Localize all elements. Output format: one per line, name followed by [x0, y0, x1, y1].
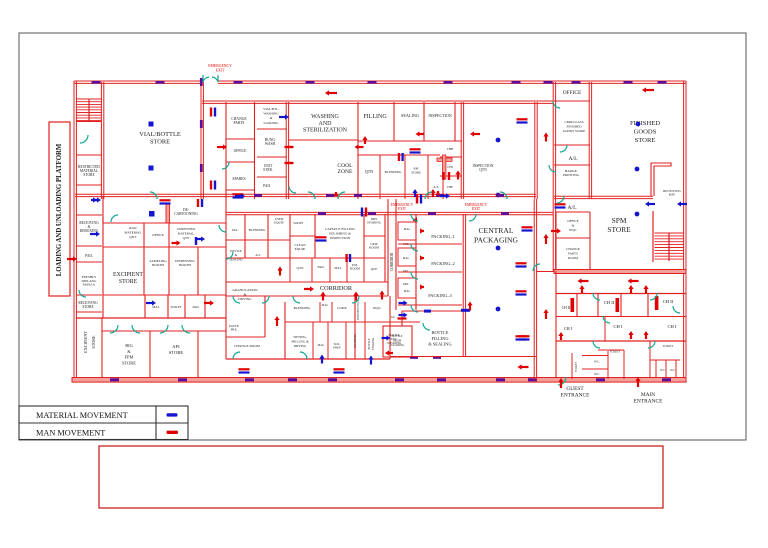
svg-text:STORE: STORE [635, 137, 656, 144]
de-cartooning wall stub [166, 204, 170, 223]
svg-text:STERILIZATION: STERILIZATION [303, 128, 348, 134]
svg-text:MAL: MAL [404, 227, 411, 231]
svg-text:CARTOONING: CARTOONING [174, 212, 198, 216]
svg-text:BAY: BAY [669, 193, 676, 197]
svg-text:BOOTH: BOOTH [179, 263, 191, 267]
svg-text:BLENDING: BLENDING [249, 228, 266, 232]
markers dispensing blue arrow [195, 238, 202, 240]
bottle filling room walls [389, 296, 391, 359]
svg-text:BLENDING: BLENDING [385, 170, 402, 174]
svg-text:RAW: RAW [129, 226, 137, 230]
svg-text:MAL: MAL [403, 256, 410, 260]
marker arrows rm store bottom [414, 192, 416, 197]
wall below fgs [554, 196, 653, 198]
material dots central [497, 194, 499, 196]
svg-text:BLENDING: BLENDING [294, 306, 311, 310]
svg-text:FINISHED: FINISHED [566, 125, 582, 129]
svg-text:SPM: SPM [612, 216, 627, 225]
packing boxes column [398, 222, 416, 240]
svg-text:PAIL: PAIL [403, 282, 409, 286]
svg-text:SPARES: SPARES [232, 177, 245, 181]
svg-text:COMP.: COMP. [337, 306, 347, 310]
room bottle drum cleaning box [383, 326, 412, 357]
svg-text:&: & [270, 116, 273, 120]
svg-text:FINISHED: FINISHED [630, 120, 660, 127]
change parts column walls [225, 102, 227, 199]
toilet block walls [571, 353, 573, 379]
svg-text:STORING: STORING [367, 221, 382, 225]
svg-text:WASH: WASH [293, 221, 303, 225]
markers bottom outside [239, 368, 250, 370]
marker dbl sterilization [316, 236, 327, 238]
svg-text:CLEANING: CLEANING [390, 343, 405, 347]
svg-text:&: & [127, 349, 131, 354]
svg-text:PRE.: PRE. [231, 328, 238, 332]
svg-text:ENTRANCE: ENTRANCE [634, 399, 663, 405]
marker pair inspection [517, 118, 528, 120]
marker pair vial wall [210, 108, 212, 117]
svg-text:STER.: STER. [263, 168, 273, 172]
svg-text:TOILET: TOILET [170, 305, 181, 309]
svg-text:QCE: QCE [371, 267, 378, 271]
wall office right / fgs left [589, 82, 591, 199]
material dots fgs [636, 122, 641, 127]
svg-text:STORE: STORE [411, 171, 421, 175]
svg-text:A/L: A/L [255, 253, 260, 257]
svg-text:PACKING–1: PACKING–1 [431, 234, 455, 239]
wall office left [553, 82, 555, 271]
svg-text:CH I: CH I [667, 324, 677, 329]
purple dashes central bottom wall [410, 356, 418, 359]
marker red varrow central [545, 237, 547, 244]
markers left column arrows [91, 199, 98, 201]
legend box [19, 406, 188, 440]
svg-text:A/L: A/L [433, 185, 438, 189]
svg-text:TOILET: TOILET [574, 362, 578, 372]
svg-text:ROOM: ROOM [350, 267, 360, 271]
svg-text:GRANULATION: GRANULATION [232, 288, 258, 292]
main entrance arrows [637, 380, 639, 387]
svg-text:DISPENSED: DISPENSED [177, 227, 195, 231]
markers corridor arrows blue [235, 195, 242, 197]
svg-text:BOTTLE: BOTTLE [391, 334, 402, 338]
marker arrow bottom corridor [521, 366, 529, 368]
outer wall right [684, 81, 686, 271]
marker arrows top corridor [328, 92, 337, 94]
svg-text:PAIL: PAIL [317, 265, 324, 269]
inspection QTN walls [461, 102, 463, 199]
packing dividers [398, 243, 462, 245]
svg-text:MAL: MAL [318, 343, 325, 347]
markers central packaging [522, 226, 533, 228]
wash column walls [286, 102, 288, 199]
svg-text:MAN MOVEMENT: MAN MOVEMENT [36, 428, 105, 437]
wall jamb stubs ch column [437, 158, 452, 161]
svg-text:API: API [172, 344, 180, 349]
svg-text:TOILET: TOILET [663, 344, 674, 348]
marker red arrow raw mat [172, 242, 178, 244]
svg-text:A/L: A/L [568, 156, 578, 162]
svg-text:STORE: STORE [83, 173, 95, 177]
markers excipient [304, 288, 311, 290]
marker up arrow spares [335, 192, 337, 195]
svg-text:QTN: QTN [479, 168, 487, 172]
svg-text:MAIN: MAIN [641, 392, 655, 398]
marker vertical red wall right of packing [469, 305, 471, 311]
svg-text:DEBOXING: DEBOXING [80, 229, 99, 233]
svg-text:ZONE: ZONE [338, 169, 353, 175]
svg-text:BOOTH: BOOTH [152, 263, 164, 267]
ch wall 3 [556, 340, 686, 342]
svg-text:&: & [244, 293, 247, 297]
svg-text:CHANGE: CHANGE [566, 247, 580, 251]
svg-text:PACKING–3: PACKING–3 [428, 293, 452, 298]
central block bottom wall [390, 356, 536, 358]
marker arrow entrance corridor [581, 280, 589, 282]
corridor wall purple dashes [254, 194, 262, 197]
svg-text:STORE: STORE [169, 350, 184, 355]
svg-text:QNT.: QNT. [129, 235, 137, 239]
marker vbar pair used equip [345, 254, 347, 262]
svg-text:IPQC: IPQC [373, 306, 381, 310]
svg-text:PACKING–2: PACKING–2 [431, 261, 455, 266]
svg-text:PAIL: PAIL [192, 305, 199, 309]
sheet border frame [19, 33, 746, 440]
marker blue arrow mal toilet [146, 302, 153, 304]
svg-text:VIAL/BOTTLE: VIAL/BOTTLE [139, 131, 181, 138]
svg-text:CH II: CH II [604, 300, 615, 305]
svg-text:SEALING: SEALING [229, 257, 243, 261]
marker blue sq decartoning [149, 211, 155, 217]
svg-text:MAL: MAL [322, 303, 329, 307]
left column partition walls [76, 154, 102, 156]
fgs inner L wall [651, 163, 671, 196]
svg-text:W.C.: W.C. [594, 360, 600, 364]
marker corridor up arrow [279, 270, 281, 276]
svg-text:WASHING: WASHING [311, 114, 339, 120]
svg-text:IPQC: IPQC [569, 228, 577, 232]
legend blue symbol [167, 413, 178, 416]
svg-text:CHE: CHE [447, 185, 453, 189]
svg-text:TOILET: TOILET [610, 350, 621, 354]
svg-text:MILLING &: MILLING & [291, 339, 309, 343]
svg-text:DRYING: DRYING [238, 297, 252, 301]
central row small room dividers [226, 239, 290, 241]
corridor wall upper [75, 194, 536, 196]
svg-text:PAIL: PAIL [263, 184, 271, 188]
blue dashes bottle filling top wall [424, 310, 431, 313]
svg-text:ROOM: ROOM [369, 246, 379, 250]
guest entrance door [558, 377, 566, 385]
svg-text:GUEST: GUEST [566, 386, 584, 392]
svg-text:MAL: MAL [334, 266, 341, 270]
svg-text:LOADING AND UNLOADING PLATFORM: LOADING AND UNLOADING PLATFORM [56, 143, 63, 276]
thick wall spm bottom [554, 270, 686, 274]
marker red up arrow che [457, 174, 459, 180]
svg-text:STORE: STORE [119, 279, 138, 285]
svg-text:PRINTING: PRINTING [563, 173, 580, 177]
svg-text:WASHING: WASHING [263, 112, 279, 116]
svg-text:INSPECTION: INSPECTION [330, 236, 351, 240]
svg-text:EQUIP.: EQUIP. [295, 247, 306, 251]
cool zone walls [358, 154, 440, 156]
svg-text:STAGING: STAGING [371, 338, 375, 350]
svg-text:QTN: QTN [365, 169, 374, 174]
receiving bay arrows [648, 203, 655, 205]
emergency exit door arcs top [203, 77, 209, 82]
svg-text:CH II: CH II [663, 299, 674, 304]
corridor horizontal walls [226, 281, 388, 283]
marker pair decartooning door [160, 199, 171, 201]
tiny rooms CHB CHI [440, 156, 462, 158]
svg-text:DRUM: DRUM [393, 338, 402, 342]
svg-text:ROOM: ROOM [568, 256, 578, 260]
marker red arrow inspection left [473, 133, 480, 135]
filling sealing inspection walls [357, 102, 359, 199]
marker blue arrow top left [94, 199, 97, 201]
svg-text:MATERIAL MOVEMENT: MATERIAL MOVEMENT [36, 411, 128, 420]
wall below top corridor [202, 101, 553, 103]
svg-text:W.C.: W.C. [660, 369, 666, 372]
svg-text:MAL: MAL [404, 289, 411, 293]
svg-text:VIAL/BTL.: VIAL/BTL. [263, 107, 279, 111]
svg-text:GOODS STORE: GOODS STORE [563, 129, 586, 133]
central row verticals [225, 199, 227, 296]
svg-text:A/L: A/L [391, 316, 396, 319]
corridor vertical walls [387, 199, 389, 296]
svg-text:CHI: CHI [447, 165, 453, 169]
door arc platform [80, 135, 88, 143]
door arcs bottom-left [110, 325, 118, 333]
svg-text:EXIT: EXIT [472, 207, 481, 211]
svg-text:LOADING: LOADING [263, 121, 279, 125]
svg-text:PREP: PREP [333, 346, 341, 350]
svg-text:OFFICE: OFFICE [234, 149, 247, 153]
svg-text:CAPSULE FILLING: CAPSULE FILLING [325, 227, 356, 231]
outer wall left [74, 81, 76, 378]
markers granulation arrows [276, 319, 278, 326]
svg-text:&: & [572, 223, 575, 227]
marker red varrow right section [545, 136, 547, 142]
svg-text:CH I: CH I [613, 324, 623, 329]
svg-text:PARTS: PARTS [568, 251, 578, 255]
mid-left block walls [102, 196, 104, 223]
corridor wall lower [226, 212, 553, 214]
svg-text:BIG: BIG [125, 343, 133, 348]
svg-text:STORE: STORE [91, 335, 96, 349]
title block [99, 446, 663, 508]
staircase top-left treads [77, 98, 102, 100]
svg-text:CORRIDOR: CORRIDOR [320, 285, 353, 292]
wall right of vial store [201, 82, 203, 199]
svg-text:FILLING: FILLING [431, 336, 449, 341]
svg-text:STORE: STORE [150, 138, 170, 145]
entrance verticals [555, 271, 557, 378]
marker dbl decartooning [197, 199, 199, 207]
outer wall top [74, 81, 202, 83]
svg-text:FPM: FPM [125, 355, 134, 360]
bottom-left partitions [101, 318, 103, 378]
svg-text:MARLA: MARLA [83, 283, 96, 287]
material point squares vial store [149, 122, 154, 127]
svg-text:MATERIAL: MATERIAL [178, 231, 195, 235]
svg-text:EQUIP: EQUIP [274, 221, 284, 225]
svg-text:CH I: CH I [564, 326, 573, 331]
svg-text:SEALING: SEALING [401, 113, 419, 118]
marker red arrow spm [551, 230, 558, 232]
rooms office ipqc walls [556, 211, 590, 213]
marker red arrows cool zone [358, 146, 364, 148]
right toilet walls [649, 341, 651, 378]
door arcs various [150, 192, 157, 199]
wall dashes on vial store wall [200, 78, 203, 86]
svg-text:ENTRANCE: ENTRANCE [561, 393, 590, 399]
loading and unloading platform [49, 122, 70, 296]
svg-text:BOTTLE: BOTTLE [432, 330, 449, 335]
svg-text:FILLING: FILLING [363, 114, 387, 120]
svg-text:STORE: STORE [122, 360, 136, 365]
svg-text:PACKAGING: PACKAGING [474, 235, 519, 244]
marker blue arrow washing [279, 116, 286, 118]
svg-text:DRYING: DRYING [294, 344, 307, 348]
marker blue arrow capsule [361, 208, 363, 217]
svg-text:STORE: STORE [607, 225, 631, 234]
central row lower small rooms [226, 257, 385, 259]
lower central room walls [284, 302, 286, 359]
svg-text:QTN: QTN [183, 236, 190, 240]
marker arrows filling area [413, 219, 416, 221]
svg-text:COATING: COATING [353, 333, 357, 348]
ch row wall 2 [556, 316, 686, 318]
central packaging right wall [534, 199, 536, 380]
svg-text:PAIL: PAIL [85, 254, 93, 258]
marker red arrow pail right [204, 302, 211, 304]
svg-text:EXCIPIENT: EXCIPIENT [113, 272, 143, 278]
legend red symbol [167, 431, 179, 434]
raw material room walls [143, 223, 145, 247]
svg-text:PAL: PAL [232, 228, 238, 232]
ch row verticals [576, 293, 578, 316]
markers packing3 lobby [399, 302, 405, 304]
svg-text:W.C.: W.C. [670, 369, 676, 372]
material dots inspection [496, 138, 501, 143]
marker emergency vert [416, 195, 418, 204]
svg-text:AND: AND [319, 121, 333, 127]
svg-text:A/L: A/L [567, 205, 577, 211]
outer wall bottom thick [72, 378, 686, 383]
marker red vbars ch doors [442, 172, 444, 180]
marker pair cool zone right [410, 148, 421, 150]
bottom-left block top wall [76, 317, 226, 319]
left column inner wall [101, 155, 103, 199]
svg-text:CHANGE ROOM: CHANGE ROOM [234, 344, 261, 348]
top wall door dashes [92, 81, 101, 84]
svg-text:INSPECTION: INSPECTION [428, 113, 451, 118]
marker vbars blending door [398, 153, 400, 161]
svg-text:CHB: CHB [447, 147, 454, 151]
svg-text:DISINFECTION: DISINFECTION [356, 299, 360, 320]
svg-text:CENTRAL: CENTRAL [478, 226, 513, 235]
staircase top-left enclosure [101, 82, 103, 155]
bottom wall door dashes [110, 378, 119, 381]
svg-text:CBRI/GLASS: CBRI/GLASS [564, 120, 583, 124]
marker red arrow under inspection [419, 133, 425, 135]
svg-text:MAL: MAL [152, 305, 159, 309]
svg-text:COOL: COOL [337, 163, 353, 169]
svg-text:GOODS: GOODS [634, 129, 657, 136]
central packaging left wall [463, 214, 465, 357]
svg-text:QTN: QTN [297, 266, 305, 270]
stair landing wall [77, 121, 102, 123]
marker blue vbar dispensed [195, 237, 197, 245]
svg-text:PARTS: PARTS [234, 121, 245, 125]
marker pair bottle filling [519, 335, 530, 337]
svg-text:EXIT: EXIT [216, 68, 225, 72]
svg-text:CH II: CH II [562, 306, 571, 310]
marker bars washing right [285, 146, 294, 148]
svg-text:STORE: STORE [82, 305, 94, 309]
svg-text:WASH: WASH [265, 142, 276, 146]
svg-text:OFFICE: OFFICE [567, 219, 578, 223]
markers sifting blue arrows [321, 358, 323, 364]
marker arrow office row [217, 146, 224, 148]
red door bars ch row [571, 298, 575, 312]
marker red varrow che2 [437, 191, 439, 194]
svg-text:POLISHING &: POLISHING & [329, 232, 351, 236]
svg-text:EXIT: EXIT [398, 207, 407, 211]
markers packing doors [421, 230, 424, 232]
svg-text:W.C.: W.C. [594, 372, 600, 376]
svg-text:OFFICE: OFFICE [563, 90, 582, 96]
marker pair al lower [555, 203, 566, 205]
marker arrows ch doors [581, 288, 583, 293]
granulation room walls [225, 296, 227, 359]
staircase bottom-right [652, 211, 654, 262]
svg-text:CORRIDOR: CORRIDOR [390, 252, 394, 271]
svg-text:OFFICE: OFFICE [152, 233, 164, 237]
ch row wall 1 [556, 293, 686, 295]
svg-text:& SEALING: & SEALING [428, 342, 452, 347]
packing left wall [415, 214, 417, 310]
svg-text:MATERIAL: MATERIAL [124, 231, 141, 235]
svg-text:EXCIPIENT: EXCIPIENT [83, 331, 88, 353]
entrance block top wall [537, 271, 554, 273]
